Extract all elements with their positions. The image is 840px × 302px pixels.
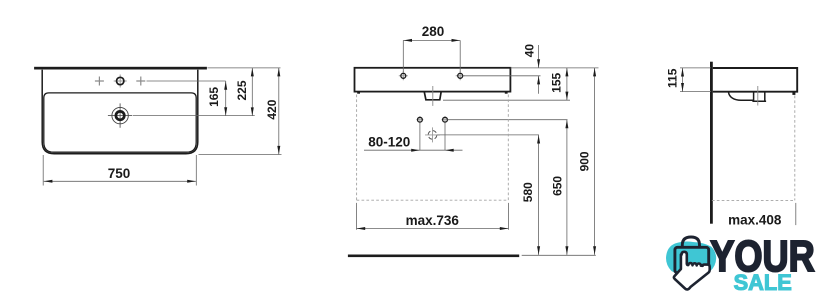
dimension 80-120 line: [364, 149, 463, 151]
drain trapezoid: [424, 92, 441, 100]
svg-text:650: 650: [551, 176, 565, 196]
ext lines for 750: [42, 155, 44, 186]
tap hole: [117, 77, 124, 84]
basin front face: [355, 68, 511, 92]
ext line basin top level: [510, 67, 598, 69]
ext lines below dashed: [356, 203, 358, 230]
fixing hole right cross: [442, 116, 449, 123]
right tap hole: [458, 73, 463, 78]
logo bag handle: [682, 237, 699, 248]
dimension 280 ext lines: [402, 40, 404, 72]
drain box side: [752, 92, 766, 101]
dimension 750 line: [44, 180, 196, 182]
dimension 165 line: [225, 81, 227, 116]
svg-text:280: 280: [422, 24, 445, 39]
svg-text:165: 165: [207, 87, 221, 107]
basin back edge bar: [34, 67, 207, 70]
fixing hole right: [443, 117, 448, 122]
dimension 40: [538, 45, 540, 68]
waste pipe crosshair circle: [428, 131, 437, 140]
drain center line: [432, 86, 434, 106]
fixing hole left cross: [416, 116, 423, 123]
svg-text:115: 115: [666, 68, 680, 88]
ext line back edge level: [207, 67, 280, 69]
ext lines 115: [680, 67, 711, 69]
dimension max.736 line: [357, 228, 509, 230]
dimension 225 line: [251, 68, 253, 116]
dimension 155: [566, 68, 568, 100]
svg-text:40: 40: [522, 44, 536, 58]
left alt tap mark +: [95, 77, 104, 86]
side center line: [757, 86, 759, 106]
ext line drain level: [133, 115, 255, 117]
svg-text:max.736: max.736: [406, 213, 460, 228]
left tap hole: [401, 73, 406, 78]
bowl underside: [729, 92, 754, 100]
side foot tick: [792, 92, 795, 95]
drain ring: [116, 111, 124, 119]
fixing hole left: [418, 117, 423, 122]
svg-text:420: 420: [265, 99, 279, 119]
dimension 115: [682, 68, 684, 92]
right alt tap mark +: [136, 77, 145, 86]
wall line: [710, 62, 713, 224]
left tap hole cross: [399, 71, 408, 80]
right foot tick: [505, 91, 508, 93]
ext line waste level: [437, 134, 539, 136]
dimension 900 line: [594, 68, 596, 255]
dimension 580 line: [538, 135, 540, 255]
dashed mounting area side: [712, 96, 795, 201]
floor line thick: [348, 255, 519, 258]
svg-text:SALE: SALE: [734, 270, 792, 295]
svg-text:580: 580: [521, 182, 535, 202]
ext line basin front level: [199, 154, 282, 156]
ext line right of max.408: [795, 203, 797, 225]
svg-text:900: 900: [578, 151, 592, 171]
svg-text:80-120: 80-120: [368, 134, 410, 149]
svg-text:155: 155: [550, 72, 564, 92]
logo bag body: [675, 247, 709, 272]
left foot tick: [357, 91, 360, 93]
logo hand: [674, 252, 710, 290]
ext line fixing level: [448, 119, 568, 121]
ext line 155 bottom: [443, 99, 570, 101]
basin side profile: [713, 68, 797, 92]
dashed mounting area middle: [357, 95, 509, 201]
svg-text:225: 225: [235, 80, 249, 100]
right tap hole cross: [456, 71, 465, 80]
ext line tap level: [147, 80, 226, 82]
floor ext line: [522, 254, 596, 256]
basin outer outline: [42, 70, 198, 154]
basin inner bowl outline: [44, 93, 196, 152]
line from fixing holes down: [419, 123, 421, 150]
dimension 420 line: [278, 68, 280, 155]
drain outer circle: [112, 107, 128, 123]
drain crosshair: [108, 103, 132, 127]
svg-text:max.408: max.408: [728, 212, 782, 227]
tap hole cross ticks: [114, 75, 127, 88]
dimension 280 line: [403, 39, 460, 41]
dimension 650 line: [566, 120, 568, 255]
ext line tap level front: [463, 75, 541, 77]
svg-text:750: 750: [108, 166, 131, 181]
logo teal blob: [666, 242, 716, 277]
